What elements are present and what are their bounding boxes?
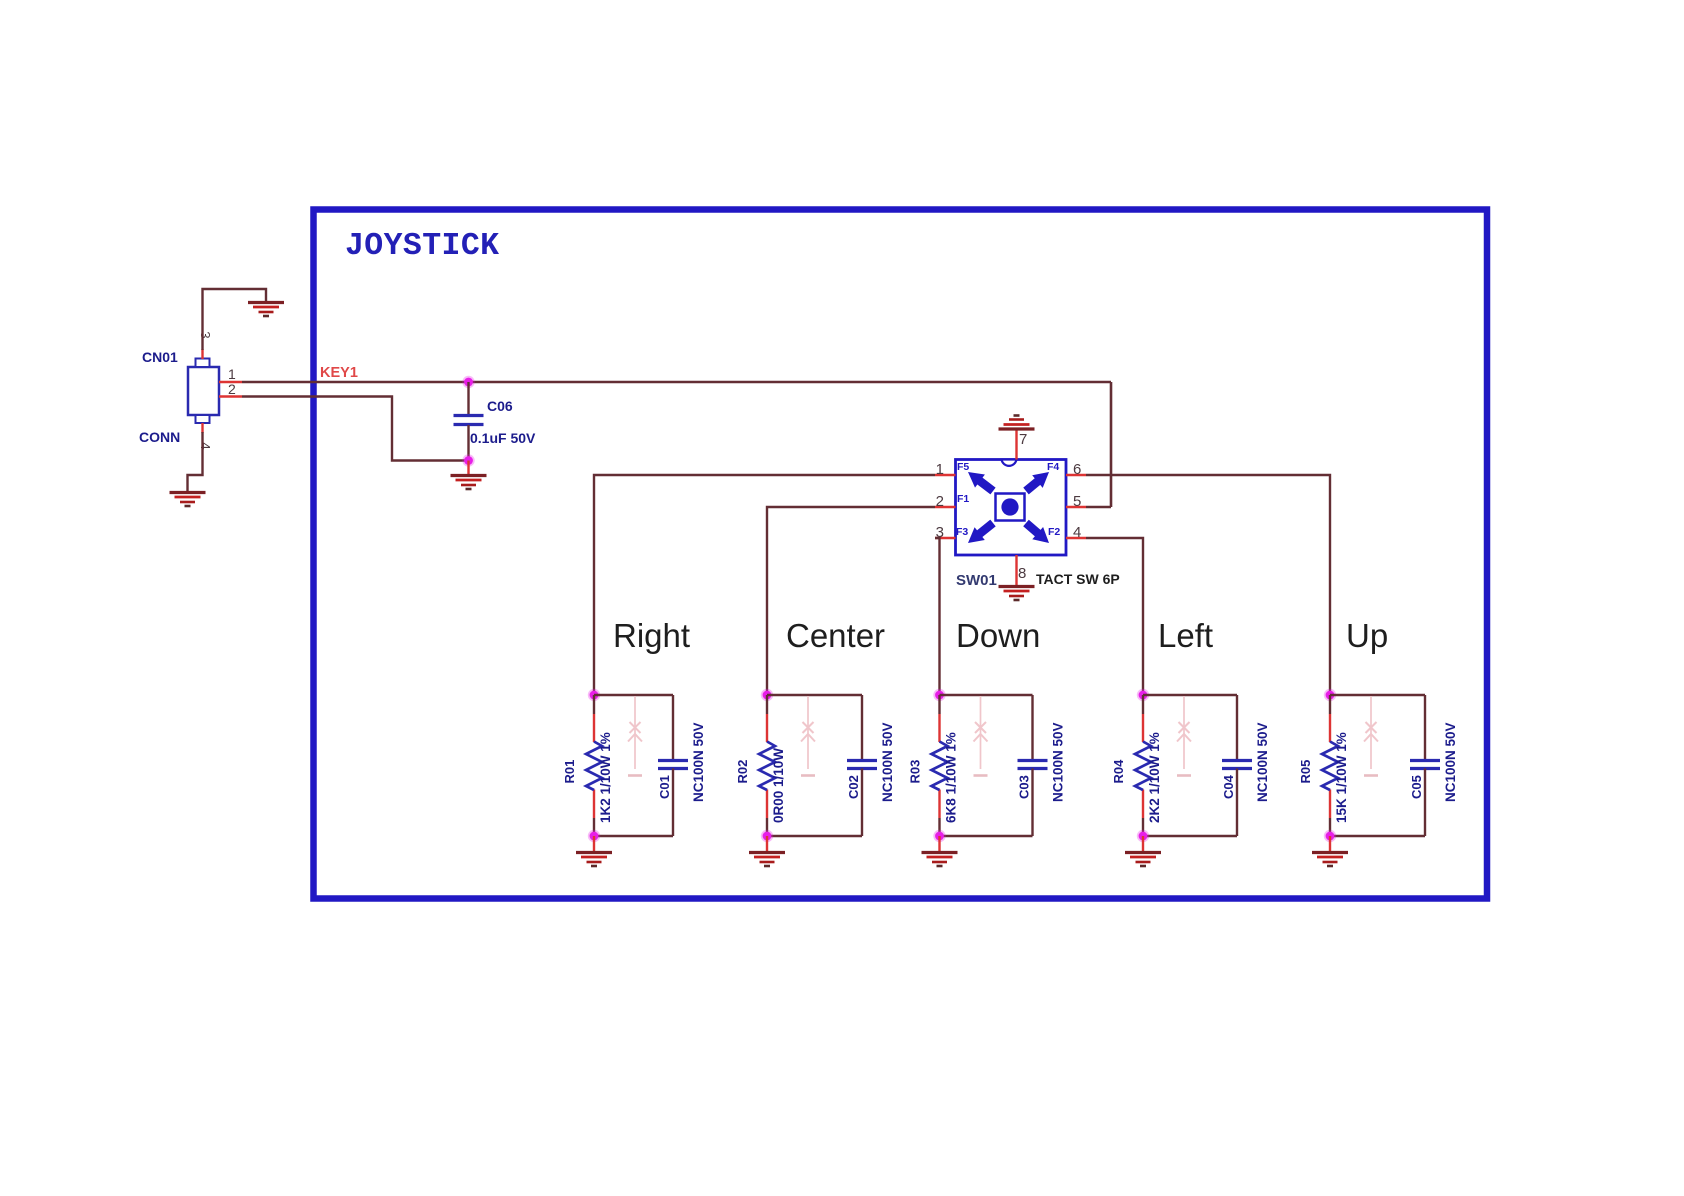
- SW01 arrow up-left: [968, 472, 993, 491]
- wire cap branch lower: [861, 769, 863, 837]
- svg-text:CN01: CN01: [142, 349, 178, 365]
- svg-text:6: 6: [1073, 461, 1081, 478]
- not-fitted component (DNP): [628, 696, 642, 776]
- SW01 arrow down-left: [968, 523, 993, 543]
- wire bottom: [767, 835, 862, 837]
- CN01 pin 4 stub: [201, 423, 203, 433]
- node Center bottom junction: [761, 830, 773, 842]
- CN01 pin 1 stub: [219, 381, 242, 383]
- svg-text:R03: R03: [908, 760, 923, 784]
- wire bottom: [594, 835, 673, 837]
- wire bottom: [1143, 835, 1237, 837]
- CN01 pin 3 stub: [201, 349, 203, 359]
- svg-text:C02: C02: [846, 775, 861, 799]
- node KEY1/C06 junction: [462, 376, 474, 388]
- wire pin3 to ground: [203, 289, 267, 350]
- svg-text:JOYSTICK: JOYSTICK: [345, 229, 499, 264]
- resistor R02: [759, 714, 775, 818]
- svg-text:5: 5: [1073, 493, 1081, 510]
- resistor R05: [1322, 714, 1338, 818]
- svg-text:1K2 1/10W 1%: 1K2 1/10W 1%: [598, 732, 613, 823]
- node Down top junction: [933, 689, 945, 701]
- SW01 pin 4 stub: [1066, 537, 1086, 539]
- svg-text:KEY1: KEY1: [320, 365, 358, 381]
- node C06 ground junction: [462, 454, 474, 466]
- svg-text:1: 1: [936, 461, 944, 478]
- capacitor C02: [847, 761, 877, 769]
- SW01 pin 3 stub: [935, 537, 956, 539]
- svg-text:2: 2: [936, 493, 944, 510]
- svg-text:0R00 1/10W: 0R00 1/10W: [771, 748, 786, 823]
- svg-text:2K2 1/10W 1%: 2K2 1/10W 1%: [1147, 732, 1162, 823]
- wire top: [1330, 694, 1425, 696]
- ground (C06): [451, 476, 487, 490]
- wire top: [767, 694, 862, 696]
- SW01 pin 2 stub: [935, 506, 956, 508]
- JOYSTICK block border: [314, 210, 1488, 899]
- ground (CN01 pin 4): [170, 493, 206, 507]
- svg-text:F2: F2: [1048, 526, 1060, 538]
- svg-text:Up: Up: [1346, 617, 1388, 654]
- wire cap branch lower: [1031, 769, 1033, 837]
- node Left bottom junction: [1137, 830, 1149, 842]
- ground (SW01 pin 7, flipped): [999, 416, 1035, 430]
- wire resistor branch: [766, 695, 768, 714]
- SW01 arrow up-right: [1026, 472, 1049, 491]
- wire KEY1 vertical to SW pin 5: [1110, 382, 1113, 507]
- resistor R04: [1135, 714, 1151, 818]
- svg-text:Left: Left: [1158, 617, 1213, 654]
- not-fitted component (DNP): [974, 696, 988, 776]
- wire pin4 to ground: [188, 432, 203, 491]
- wire resistor branch: [1329, 695, 1331, 714]
- wire SW01 pin3 to Down node: [935, 538, 940, 692]
- wire cap branch lower: [1424, 769, 1426, 837]
- wire cap branch upper: [672, 695, 674, 760]
- svg-text:6K8 1/10W 1%: 6K8 1/10W 1%: [944, 732, 959, 823]
- svg-text:NC100N 50V: NC100N 50V: [1443, 722, 1458, 802]
- svg-text:C04: C04: [1221, 774, 1236, 799]
- svg-text:2: 2: [228, 381, 236, 397]
- wire SW01 pin4 to Left node: [1086, 538, 1143, 692]
- SW01 arrow down-right: [1026, 523, 1049, 543]
- ground (Down): [922, 853, 958, 867]
- wire cap branch lower: [1236, 769, 1238, 837]
- svg-text:1: 1: [228, 366, 236, 382]
- svg-text:Down: Down: [956, 617, 1040, 654]
- wire top: [940, 694, 1033, 696]
- wire resistor branch: [1142, 695, 1144, 714]
- wire bottom: [940, 835, 1033, 837]
- SW01 pin 8 stub: [1015, 555, 1017, 586]
- capacitor C04: [1222, 761, 1252, 769]
- svg-text:Center: Center: [786, 617, 885, 654]
- wire cap branch upper: [861, 695, 863, 760]
- wire SW01 pin5 to KEY1: [1086, 506, 1111, 508]
- svg-text:3: 3: [198, 331, 213, 338]
- svg-text:C05: C05: [1409, 775, 1424, 799]
- joystick tact switch SW01 body: [956, 460, 1067, 556]
- wire to ground: [766, 836, 768, 852]
- svg-text:R04: R04: [1111, 759, 1126, 784]
- not-fitted component (DNP): [1177, 696, 1191, 776]
- wire to ground: [1329, 836, 1331, 852]
- SW01 pin 1 stub: [935, 474, 956, 476]
- wire top: [1143, 694, 1237, 696]
- node Right top junction: [588, 689, 600, 701]
- svg-text:SW01: SW01: [956, 572, 997, 589]
- SW01 pin 7 stub: [1015, 429, 1017, 460]
- svg-text:R05: R05: [1298, 760, 1313, 784]
- wire cap branch lower: [672, 769, 674, 837]
- svg-text:F5: F5: [957, 461, 969, 473]
- svg-text:8: 8: [1018, 565, 1026, 582]
- ground (CN01 pin 3): [248, 303, 284, 317]
- connector CN01: [188, 359, 219, 424]
- svg-text:NC100N 50V: NC100N 50V: [691, 722, 706, 802]
- wire to ground: [1142, 836, 1144, 852]
- node Up bottom junction: [1324, 830, 1336, 842]
- wire CN01 pin2 to C06: [242, 397, 466, 461]
- capacitor C01: [658, 761, 688, 769]
- svg-text:CONN: CONN: [139, 429, 180, 445]
- wire cap branch upper: [1031, 695, 1033, 760]
- capacitor C03: [1018, 761, 1048, 769]
- ground (SW01 pin 8): [999, 587, 1035, 601]
- svg-text:NC100N 50V: NC100N 50V: [880, 722, 895, 802]
- svg-text:C03: C03: [1017, 775, 1032, 799]
- svg-text:4: 4: [198, 442, 213, 449]
- svg-text:4: 4: [1073, 524, 1081, 541]
- ground (Up): [1312, 853, 1348, 867]
- wire C06 bottom: [467, 425, 469, 461]
- wire SW01 pin2 to Center node: [767, 507, 935, 692]
- svg-text:Right: Right: [613, 617, 690, 654]
- wire cap branch upper: [1236, 695, 1238, 760]
- SW01 pin 5 stub: [1066, 506, 1086, 508]
- wire cap branch upper: [1424, 695, 1426, 760]
- node Left top junction: [1137, 689, 1149, 701]
- svg-text:F3: F3: [956, 526, 968, 538]
- wire SW01 pin6 to Up node: [1086, 475, 1330, 692]
- wire resistor branch: [593, 695, 595, 714]
- wire SW01 pin1 to Right node: [594, 475, 935, 692]
- capacitor C06: [454, 416, 484, 425]
- svg-text:0.1uF 50V: 0.1uF 50V: [470, 430, 536, 446]
- not-fitted component (DNP): [1364, 696, 1378, 776]
- svg-text:C01: C01: [657, 775, 672, 799]
- svg-text:C06: C06: [487, 398, 513, 414]
- resistor R03: [932, 714, 948, 818]
- resistor R01: [586, 714, 602, 818]
- capacitor C05: [1410, 761, 1440, 769]
- wire to ground: [467, 461, 469, 476]
- wire C06 top: [467, 382, 469, 415]
- svg-text:7: 7: [1019, 431, 1027, 448]
- node Right bottom junction: [588, 830, 600, 842]
- ground (Left): [1125, 853, 1161, 867]
- node Up top junction: [1324, 689, 1336, 701]
- svg-text:R02: R02: [735, 760, 750, 784]
- ground (Center): [749, 853, 785, 867]
- CN01 pin 2 stub: [219, 395, 242, 397]
- wire top: [594, 694, 673, 696]
- svg-text:NC100N 50V: NC100N 50V: [1255, 722, 1270, 802]
- not-fitted component (DNP): [801, 696, 815, 776]
- wire bottom: [1330, 835, 1425, 837]
- node Center top junction: [761, 689, 773, 701]
- wire resistor branch: [938, 695, 940, 714]
- svg-text:15K 1/10W 1%: 15K 1/10W 1%: [1334, 732, 1349, 823]
- svg-text:F1: F1: [957, 493, 969, 505]
- wire to ground: [938, 836, 940, 852]
- wire to ground: [593, 836, 595, 852]
- svg-text:NC100N 50V: NC100N 50V: [1051, 722, 1066, 802]
- SW01 pin 6 stub: [1066, 474, 1086, 476]
- wire KEY1 horizontal: [242, 381, 1111, 384]
- svg-text:TACT SW 6P: TACT SW 6P: [1036, 571, 1120, 587]
- svg-text:R01: R01: [562, 760, 577, 784]
- ground (Right): [576, 853, 612, 867]
- svg-text:F4: F4: [1047, 461, 1059, 473]
- node Down bottom junction: [933, 830, 945, 842]
